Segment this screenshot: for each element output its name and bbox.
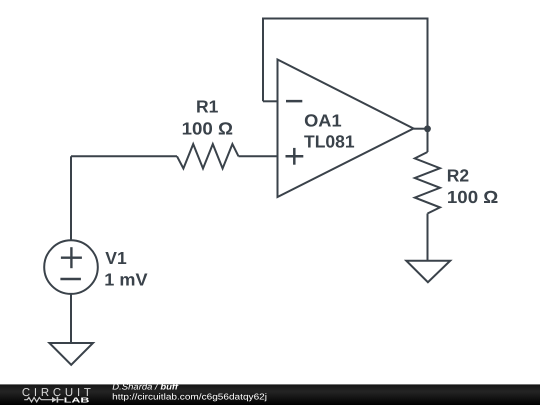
svg-text:OA1: OA1: [304, 111, 342, 131]
svg-text:R1: R1: [196, 97, 219, 117]
svg-text:V1: V1: [105, 248, 127, 268]
svg-text:100 Ω: 100 Ω: [447, 187, 498, 207]
svg-text:LAB: LAB: [64, 395, 90, 404]
svg-text:R2: R2: [447, 166, 470, 186]
svg-text:100 Ω: 100 Ω: [182, 118, 233, 138]
svg-text:TL081: TL081: [304, 131, 355, 151]
svg-text:http://circuitlab.com/c6g56dat: http://circuitlab.com/c6g56datqy62j: [112, 391, 267, 401]
svg-text:D.Sharda / buff: D.Sharda / buff: [112, 382, 179, 392]
svg-text:1 mV: 1 mV: [104, 269, 148, 289]
